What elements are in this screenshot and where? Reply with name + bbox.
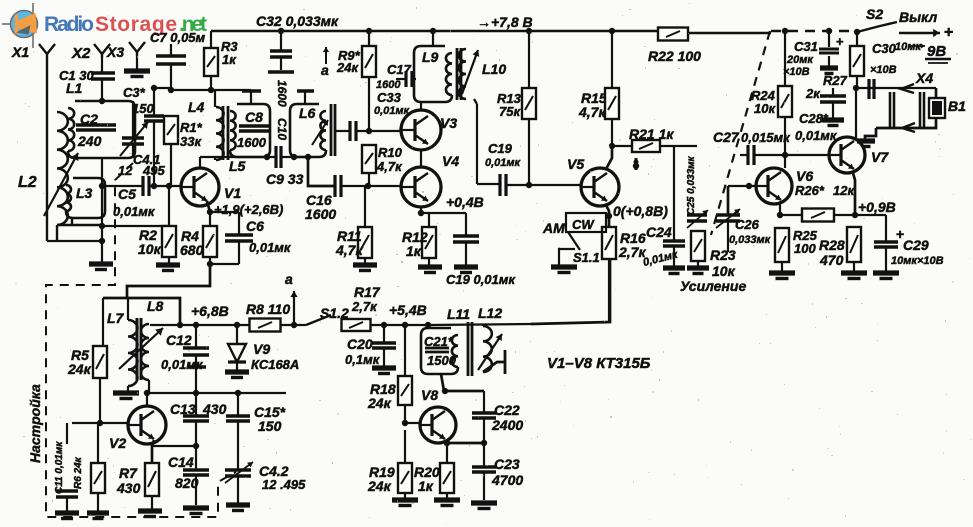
svg-text:24к: 24к [336, 60, 359, 75]
svg-text:20мк: 20мк [786, 54, 814, 66]
svg-text:R1*: R1* [180, 120, 203, 135]
svg-text:R8 110: R8 110 [246, 301, 290, 317]
svg-text:R17: R17 [354, 284, 381, 300]
svg-text:С12: С12 [166, 332, 192, 348]
svg-text:V1: V1 [224, 185, 241, 201]
svg-text:С33: С33 [377, 90, 402, 105]
svg-text:С29: С29 [903, 237, 929, 253]
svg-text:0,01мк: 0,01мк [249, 240, 292, 255]
svg-text:L11: L11 [447, 306, 470, 322]
svg-text:С22: С22 [494, 402, 520, 418]
svg-text:2,7к: 2,7к [351, 299, 378, 314]
svg-text:→+7,8 В: →+7,8 В [477, 14, 533, 30]
svg-text:V2: V2 [109, 435, 126, 451]
svg-text:10к: 10к [712, 263, 736, 279]
svg-text:С14: С14 [168, 454, 194, 470]
svg-text:24к: 24к [367, 395, 392, 411]
svg-text:R23: R23 [710, 247, 736, 263]
svg-text:С23: С23 [494, 456, 520, 472]
svg-text:0,033мк: 0,033мк [729, 234, 772, 246]
svg-text:С8: С8 [245, 109, 263, 125]
svg-text:0,01мк: 0,01мк [161, 357, 204, 372]
svg-text:4,7к: 4,7к [335, 242, 363, 258]
svg-text:С11 0,01мк: С11 0,01мк [54, 441, 65, 494]
svg-text:R28: R28 [819, 237, 845, 253]
svg-text:С30: С30 [872, 41, 897, 56]
svg-text:L1: L1 [66, 80, 83, 96]
svg-text:×10В: ×10В [783, 66, 810, 78]
svg-text:4,7к: 4,7к [578, 104, 606, 120]
svg-text:L4: L4 [188, 99, 205, 115]
svg-text:V1–V8 КТ315Б: V1–V8 КТ315Б [547, 355, 651, 372]
svg-text:С5: С5 [118, 186, 136, 202]
svg-text:R7: R7 [119, 465, 138, 481]
svg-text:КС168А: КС168А [251, 357, 299, 372]
svg-text:V8: V8 [421, 387, 438, 403]
svg-text:1600: 1600 [275, 80, 289, 107]
svg-text:0,01мк: 0,01мк [795, 128, 838, 143]
svg-text:L12: L12 [478, 305, 502, 321]
svg-text:С32 0,033мк: С32 0,033мк [256, 13, 339, 29]
svg-text:4700: 4700 [491, 472, 523, 488]
svg-text:S2: S2 [866, 6, 883, 22]
svg-text:24к: 24к [67, 361, 92, 377]
svg-text:С17: С17 [387, 62, 412, 77]
svg-text:430: 430 [116, 480, 141, 496]
svg-text:С19: С19 [488, 141, 513, 156]
svg-text:2к: 2к [805, 86, 821, 101]
svg-text:С24: С24 [646, 224, 672, 240]
svg-text:10мк: 10мк [895, 41, 922, 53]
svg-text:1к: 1к [418, 478, 434, 494]
svg-text:12к: 12к [833, 183, 855, 198]
svg-text:L9: L9 [422, 49, 439, 65]
svg-text:L6: L6 [299, 105, 316, 121]
svg-text:+: + [944, 24, 953, 41]
svg-text:1500: 1500 [427, 353, 457, 368]
svg-text:Выкл: Выкл [899, 9, 938, 25]
svg-text:0,01мк: 0,01мк [485, 157, 522, 169]
svg-text:R10: R10 [378, 145, 403, 160]
svg-text:a: a [285, 271, 293, 287]
svg-text:С26: С26 [735, 217, 760, 232]
svg-text:+5,4В: +5,4В [389, 302, 427, 318]
svg-text:V7: V7 [871, 149, 889, 165]
svg-text:V6: V6 [796, 168, 813, 184]
svg-text:1600: 1600 [237, 135, 267, 150]
svg-text:24к: 24к [367, 478, 392, 494]
svg-text:470: 470 [819, 252, 844, 268]
svg-text:4,7к: 4,7к [376, 159, 403, 174]
svg-text:10мк×10В: 10мк×10В [891, 255, 944, 267]
svg-text:100: 100 [794, 241, 816, 256]
svg-text:+1,9(+2,6В): +1,9(+2,6В) [214, 202, 283, 217]
svg-text:С6: С6 [246, 218, 264, 234]
svg-text:9В: 9В [927, 43, 946, 60]
svg-text:L3: L3 [76, 185, 93, 201]
svg-text:С3*: С3* [123, 85, 146, 100]
svg-text:a: a [321, 62, 329, 78]
svg-text:Х3: Х3 [106, 44, 124, 60]
svg-text:1к: 1к [406, 243, 422, 259]
svg-text:0,015мк: 0,015мк [741, 130, 791, 145]
svg-text:2400: 2400 [491, 417, 523, 433]
svg-text:0,1мк: 0,1мк [345, 352, 381, 367]
svg-text:0(+0,8В): 0(+0,8В) [613, 203, 668, 219]
svg-text:L5: L5 [229, 158, 246, 174]
svg-text:R27: R27 [823, 73, 848, 88]
svg-text:С9 33: С9 33 [266, 171, 304, 187]
svg-text:75к: 75к [499, 104, 521, 119]
svg-text:С25 0,033мк: С25 0,033мк [686, 155, 697, 215]
svg-text:R6 24к: R6 24к [73, 456, 84, 489]
svg-text:CW: CW [572, 217, 595, 232]
svg-text:АМ: АМ [542, 220, 565, 236]
svg-text:820: 820 [175, 475, 199, 491]
svg-text:430: 430 [202, 401, 227, 417]
svg-text:0,01мк: 0,01мк [374, 105, 411, 117]
svg-text:Х1: Х1 [11, 44, 29, 60]
svg-text:L10: L10 [482, 61, 506, 77]
svg-text:Настройка: Настройка [27, 384, 43, 463]
svg-text:1к: 1к [222, 52, 237, 67]
svg-text:С19 0,01мк: С19 0,01мк [446, 272, 516, 287]
svg-text:10к: 10к [754, 101, 776, 116]
svg-text:С20: С20 [347, 336, 373, 352]
svg-text:Х4: Х4 [915, 70, 933, 86]
svg-text:33к: 33к [180, 134, 202, 149]
svg-text:+0,4В: +0,4В [446, 194, 484, 210]
svg-text:Х2: Х2 [71, 45, 91, 62]
svg-text:Усиление: Усиление [680, 278, 746, 294]
svg-text:12 .495: 12 .495 [262, 477, 306, 492]
svg-text:С27: С27 [713, 129, 740, 145]
svg-text:Radio: Radio [44, 13, 94, 36]
svg-text:240: 240 [77, 133, 102, 149]
svg-text:150: 150 [258, 418, 282, 434]
svg-text:L2: L2 [18, 174, 37, 191]
svg-text:1600: 1600 [305, 206, 336, 222]
svg-text:V3: V3 [440, 115, 457, 131]
svg-text:L8: L8 [147, 298, 164, 314]
svg-text:С10: С10 [275, 118, 289, 140]
svg-text:0,01мк: 0,01мк [113, 204, 156, 219]
svg-text:S1.1: S1.1 [573, 250, 600, 265]
svg-text:680: 680 [180, 242, 204, 258]
svg-text:С31: С31 [794, 39, 818, 54]
svg-text:В1: В1 [948, 98, 966, 114]
svg-text:V9: V9 [253, 341, 270, 357]
svg-text:+6,8В: +6,8В [191, 303, 229, 319]
svg-text:+0,9В: +0,9В [858, 199, 896, 215]
svg-text:+: + [836, 34, 844, 49]
svg-text:R26*: R26* [795, 183, 825, 198]
svg-text:×10В: ×10В [870, 64, 897, 76]
svg-text:R22 100: R22 100 [648, 48, 701, 64]
svg-text:V5: V5 [567, 156, 584, 172]
svg-text:L7: L7 [107, 310, 125, 326]
svg-text:С7 0,05м: С7 0,05м [150, 30, 206, 45]
svg-text:С13: С13 [170, 401, 196, 417]
svg-text:150: 150 [132, 101, 154, 116]
